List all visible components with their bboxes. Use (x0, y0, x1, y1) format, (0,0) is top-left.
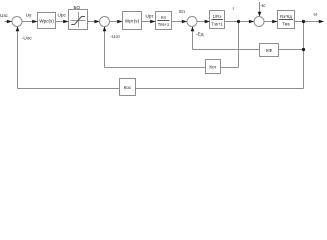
wire BO to S2 (88, 21, 100, 23)
converter block Kp/(Tps+1) (156, 12, 172, 30)
arrowhead into S4 (249, 20, 254, 24)
wire node omega vertical down (303, 22, 305, 89)
arrowhead into S2 (94, 20, 99, 24)
wire emf feedback horizontal y50 (193, 49, 304, 51)
wire S1 to W1 (22, 21, 38, 23)
svg-text:-Uот: -Uот (111, 34, 121, 39)
wire W2 to W3 (142, 21, 156, 23)
arrowhead feedback into S3 bottom (191, 27, 195, 32)
current regulator block Wrt(s) (123, 12, 142, 30)
svg-text:ω: ω (314, 12, 318, 17)
emf feedback block KF (260, 44, 279, 57)
svg-text:Eп: Eп (179, 9, 185, 14)
svg-text:I: I (233, 6, 234, 11)
svg-text:Uзс: Uзс (0, 13, 8, 18)
node omega junction dot (302, 20, 305, 23)
svg-text:Тэs+1: Тэs+1 (211, 21, 223, 26)
wire W5 to output through node omega (295, 21, 324, 23)
wire S3 to W4 (197, 21, 210, 23)
mechanical block Re*Kd/Tms (278, 11, 295, 29)
arrowhead into W4 (205, 20, 210, 24)
arrowhead into S3 (182, 20, 187, 24)
wire input Uzs to S1 (5, 21, 13, 23)
svg-text:-Eд: -Eд (196, 32, 204, 37)
arrowhead feedback into S1 bottom (16, 27, 20, 32)
arrowhead -Ic into S4 top (258, 12, 262, 17)
svg-text:Uрт: Uрт (146, 14, 155, 19)
speed regulator block Wrs(s) (38, 13, 56, 29)
arrowhead into S1 (7, 20, 12, 24)
wire S2 to W2 (110, 21, 123, 23)
wire riser to S1 (17, 27, 19, 89)
arrowhead into W1 (32, 20, 37, 24)
svg-text:Uу: Uу (26, 13, 32, 18)
summing junction S4 (254, 17, 264, 27)
node omega-KF branch dot (302, 48, 305, 51)
svg-text:Тпs+1: Тпs+1 (158, 22, 170, 27)
svg-text:Rэ*Кд: Rэ*Кд (280, 14, 292, 19)
armature block 1/Re/(Tes+1) (210, 11, 225, 29)
arrowhead into W2 (117, 20, 122, 24)
arrowhead into W3 (150, 20, 155, 24)
wire S4 to W5 (264, 21, 278, 23)
svg-text:1/Rэ: 1/Rэ (213, 14, 222, 19)
wire riser to S2 (104, 27, 106, 68)
svg-text:Кп: Кп (161, 15, 166, 20)
arrowhead into W5 (272, 20, 277, 24)
summing junction S1 (12, 17, 22, 27)
current feedback block Kot (206, 60, 221, 74)
svg-text:-Uос: -Uос (22, 36, 33, 41)
wire W3 to S3 (172, 21, 188, 23)
wire speed feedback horizontal y88 (18, 88, 304, 90)
wire node I vertical down (238, 22, 240, 68)
wire current feedback horizontal y67 (105, 67, 239, 69)
speed feedback block Kos (120, 79, 136, 96)
svg-text:Кот: Кот (209, 64, 217, 69)
limiter block BO (69, 10, 88, 30)
svg-text:Uрс: Uрс (58, 13, 67, 18)
summing junction S3 (187, 17, 197, 27)
summing junction S2 (100, 17, 110, 27)
node I junction dot (237, 20, 240, 23)
arrowhead feedback into S2 bottom (103, 27, 107, 32)
wire W4 to S4 through node I (225, 21, 255, 23)
svg-text:Кос: Кос (124, 85, 132, 90)
wire W1 to BO (56, 21, 69, 23)
svg-text:-Iс: -Iс (260, 3, 266, 8)
svg-text:Wрс(s): Wрс(s) (39, 19, 54, 24)
arrowhead output omega (319, 20, 324, 24)
svg-text:Тмs: Тмs (282, 21, 289, 26)
wire riser to S3 (192, 27, 194, 50)
svg-text:Wрт(s): Wрт(s) (125, 19, 140, 24)
svg-text:БО: БО (73, 5, 80, 10)
svg-text:КФ: КФ (266, 48, 273, 53)
wire disturbance -Ic vertical into S4 (259, 2, 261, 17)
arrowhead into BO (63, 20, 68, 24)
